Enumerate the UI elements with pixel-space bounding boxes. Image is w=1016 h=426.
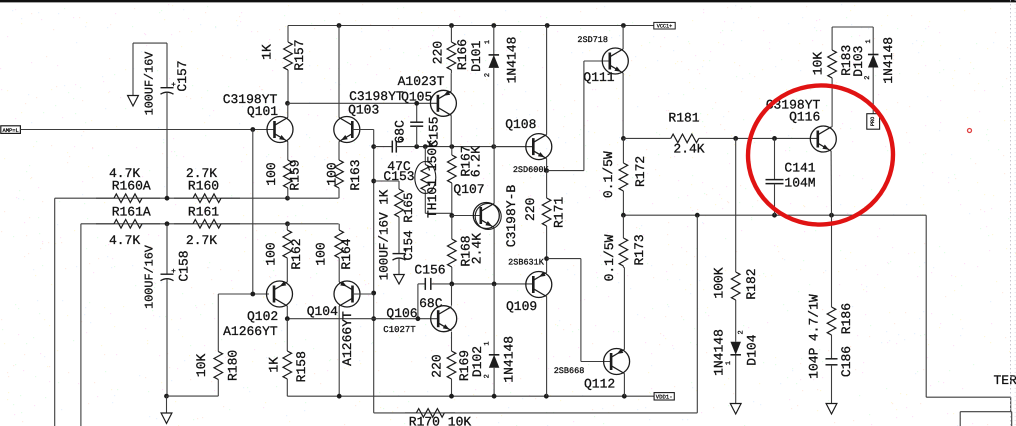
label Q101 bbox=[247, 104, 278, 119]
annotation red dot bbox=[968, 129, 972, 133]
label 2.4K R181 bbox=[673, 141, 704, 156]
svg-text:220: 220 bbox=[523, 198, 538, 221]
svg-text:A1023T: A1023T bbox=[398, 74, 445, 89]
svg-text:R180: R180 bbox=[226, 350, 241, 381]
label C157 bbox=[175, 60, 190, 91]
svg-text:C1027T: C1027T bbox=[383, 325, 416, 335]
wire central vertical bbox=[373, 130, 375, 413]
node central-C153wire bbox=[371, 144, 376, 149]
node D101-Q107c bbox=[491, 144, 496, 149]
label C3198YT Q116 bbox=[766, 98, 821, 113]
svg-text:2.4K: 2.4K bbox=[673, 141, 704, 156]
svg-text:4.7K: 4.7K bbox=[109, 233, 140, 248]
svg-text:D104: D104 bbox=[745, 334, 760, 365]
wire Q109e to Q112 base bbox=[547, 259, 611, 362]
svg-text:1N4148: 1N4148 bbox=[504, 37, 519, 84]
wire Q106 base bbox=[288, 318, 439, 320]
node C141 top bbox=[772, 136, 777, 141]
node rail-Q112c bbox=[622, 394, 627, 399]
svg-text:10K: 10K bbox=[194, 354, 209, 378]
wire Q101c to Q105 base bbox=[288, 102, 438, 104]
label 0.1/5W R172 bbox=[601, 151, 616, 198]
wire row2 bbox=[81, 223, 288, 225]
node Q107 base bbox=[449, 213, 454, 218]
label 6.2K bbox=[469, 146, 484, 177]
wire R180 top bbox=[217, 294, 219, 348]
wire term rail bbox=[926, 396, 1011, 398]
resistor R161A bbox=[96, 220, 160, 229]
wire row1 to R163 bbox=[288, 197, 339, 199]
node input-split bbox=[250, 127, 255, 132]
wire left drop2 bbox=[80, 224, 82, 426]
svg-text:1K: 1K bbox=[260, 44, 275, 60]
svg-text:R181: R181 bbox=[668, 110, 699, 125]
label C155 bbox=[426, 116, 441, 147]
wire R181 to Q116 bbox=[710, 137, 817, 139]
svg-text:100: 100 bbox=[313, 242, 328, 265]
node central-Q104b bbox=[371, 291, 376, 296]
node rail-C141 bbox=[772, 213, 777, 218]
transistor Q101 bbox=[267, 117, 293, 143]
svg-text:4.7/1W: 4.7/1W bbox=[806, 294, 821, 341]
svg-text:Q108: Q108 bbox=[505, 117, 536, 132]
label Q112 bbox=[584, 377, 615, 392]
wire Q112 emitter bbox=[623, 268, 625, 350]
label R163 bbox=[348, 159, 363, 190]
wire Q108 collector bbox=[546, 26, 548, 135]
label 2.7K R160 bbox=[186, 166, 217, 181]
label Q102 bbox=[247, 309, 278, 324]
diode D104 bbox=[730, 312, 741, 404]
label 1N4148 D104 bbox=[711, 329, 726, 376]
resistor R169 bbox=[447, 351, 456, 396]
label C156 bbox=[414, 262, 445, 277]
label C153 bbox=[383, 169, 414, 184]
label 104P C186 bbox=[806, 347, 821, 378]
svg-text:0.1/5W: 0.1/5W bbox=[602, 234, 617, 281]
label 68C C155 bbox=[392, 120, 407, 144]
label 2SB668 bbox=[554, 366, 585, 376]
label Q111 bbox=[583, 70, 614, 85]
resistor R160 bbox=[174, 194, 240, 203]
svg-text:Q101: Q101 bbox=[247, 104, 278, 119]
svg-text:100: 100 bbox=[325, 162, 340, 185]
resistor R160A bbox=[96, 194, 160, 203]
capacitor C141 bbox=[766, 138, 784, 215]
wire R173 to Q112e bbox=[623, 267, 624, 269]
wire Q103 base bbox=[352, 129, 373, 131]
wire Q102 emitter bbox=[286, 258, 288, 282]
wire input bbox=[20, 129, 274, 131]
resistor R167 bbox=[448, 147, 457, 216]
svg-text:2: 2 bbox=[737, 330, 745, 334]
label 1K R158 bbox=[266, 357, 281, 373]
svg-text:R170 10K: R170 10K bbox=[409, 414, 472, 426]
svg-text:R162: R162 bbox=[289, 238, 304, 269]
capacitor C186 bbox=[826, 356, 838, 404]
svg-text:2SD600K: 2SD600K bbox=[513, 165, 550, 175]
svg-text:2.7K: 2.7K bbox=[186, 233, 217, 248]
resistor R181 bbox=[660, 134, 710, 143]
node C155 bottom bbox=[414, 144, 419, 149]
svg-text:R166: R166 bbox=[455, 39, 470, 70]
node Q101 collector bbox=[285, 101, 290, 106]
node central-R165 bbox=[371, 179, 376, 184]
node rail-Q109c bbox=[544, 394, 549, 399]
label Q104 bbox=[307, 304, 338, 319]
node bus-R166 bbox=[449, 23, 454, 28]
wire term stub bbox=[1010, 397, 1012, 412]
ground C158 bbox=[161, 396, 172, 423]
label D101 bbox=[469, 41, 484, 72]
wire Q111 collector bbox=[622, 26, 624, 50]
label R173 bbox=[632, 234, 647, 265]
svg-text:Q109: Q109 bbox=[506, 299, 537, 314]
svg-text:100UF/16V: 100UF/16V bbox=[143, 51, 157, 116]
label 220 R169 bbox=[429, 354, 444, 377]
wire Q108e to Q111 base bbox=[547, 61, 610, 171]
resistor R159 bbox=[284, 160, 293, 198]
ground C154 bbox=[394, 275, 404, 285]
capacitor C157 bbox=[161, 43, 176, 198]
svg-text:2SB668: 2SB668 bbox=[554, 366, 585, 376]
label C158 bbox=[177, 250, 192, 281]
wire right drop bbox=[925, 215, 927, 397]
label 2SD718 bbox=[577, 35, 608, 45]
label 100UF/16V 1K bbox=[378, 189, 392, 280]
label R162 bbox=[289, 238, 304, 269]
node row2 R162 bbox=[285, 221, 290, 226]
page top edge bbox=[0, 0, 1016, 2]
wire C153 to Q108 bbox=[417, 146, 533, 148]
node row2 mid bbox=[165, 221, 170, 226]
label 1N4148 D102 bbox=[501, 336, 516, 383]
net label PRO bbox=[867, 114, 880, 130]
port AMP=L box bbox=[1, 126, 21, 134]
svg-text:C3198Y-B: C3198Y-B bbox=[504, 185, 519, 248]
svg-text:R186: R186 bbox=[839, 303, 854, 334]
svg-text:VDD1-: VDD1- bbox=[656, 394, 673, 401]
svg-text:C154 R165: C154 R165 bbox=[402, 192, 416, 260]
pin 1 D101 bbox=[484, 40, 492, 44]
svg-text:VCC1+: VCC1+ bbox=[657, 24, 673, 30]
label R170 10K bbox=[409, 414, 472, 426]
label 47C bbox=[387, 159, 411, 174]
node rail-fb bbox=[695, 213, 700, 218]
wire TH101 bottom bbox=[425, 212, 452, 214]
label 100K R182 bbox=[712, 267, 727, 298]
wire feedback bottom bbox=[374, 412, 698, 414]
label C3198YT Q103 bbox=[349, 89, 404, 104]
node Q109e bbox=[544, 256, 549, 261]
svg-text:C157: C157 bbox=[175, 60, 190, 91]
svg-text:2.4K: 2.4K bbox=[469, 233, 484, 264]
label D102 bbox=[470, 346, 485, 377]
svg-text:1N4148: 1N4148 bbox=[711, 329, 726, 376]
label 1N4148 D101 bbox=[504, 37, 519, 84]
wire Q102 collector bbox=[286, 306, 288, 319]
label 100 R163 bbox=[325, 162, 340, 185]
label R168 bbox=[458, 235, 473, 266]
label 220 R171 bbox=[523, 198, 538, 221]
label 100 R162 bbox=[263, 242, 278, 265]
wire C157 top bbox=[133, 42, 167, 44]
label TH101 150K bbox=[425, 140, 440, 218]
svg-text:1K: 1K bbox=[266, 357, 281, 373]
wire Q116 emitter bbox=[830, 151, 832, 215]
svg-text:100UF/16V 1K: 100UF/16V 1K bbox=[378, 189, 392, 280]
svg-text:2SD718: 2SD718 bbox=[577, 35, 608, 45]
label C1027T bbox=[383, 325, 416, 335]
svg-text:6.2K: 6.2K bbox=[469, 146, 484, 177]
transistor Q104 bbox=[334, 281, 360, 307]
svg-text:Q112: Q112 bbox=[584, 377, 615, 392]
capacitor C155 bbox=[410, 103, 423, 146]
svg-text:R172: R172 bbox=[633, 156, 648, 187]
wire Q107 base bbox=[452, 215, 481, 217]
resistor R172 bbox=[619, 138, 628, 215]
wire feedback down bbox=[696, 215, 698, 413]
resistor R170 bbox=[405, 409, 455, 418]
svg-text:A1266YT: A1266YT bbox=[340, 311, 355, 366]
pin 2 D104 bbox=[737, 330, 745, 334]
label C3198Y-B bbox=[504, 185, 519, 248]
transistor Q107 bbox=[473, 203, 501, 230]
svg-text:R161: R161 bbox=[188, 205, 219, 220]
label C186 bbox=[839, 346, 854, 377]
label R159 bbox=[288, 159, 303, 190]
capacitor C154 bbox=[393, 241, 408, 275]
wire Q107 emitter bbox=[493, 228, 495, 284]
wire bottom rail bbox=[287, 395, 654, 397]
node TH101 top bbox=[423, 144, 428, 149]
wire top VCC bus bbox=[288, 25, 654, 27]
wire Q109 emitter bbox=[546, 259, 548, 273]
label TER bbox=[994, 373, 1016, 388]
label 10K R183 bbox=[811, 52, 826, 76]
label Q108 bbox=[505, 117, 536, 132]
svg-text:2SB631K: 2SB631K bbox=[508, 258, 545, 268]
label 68C C156 bbox=[419, 296, 443, 311]
node central-Q106b bbox=[371, 316, 376, 321]
svg-text:R158: R158 bbox=[294, 351, 309, 382]
svg-text:2: 2 bbox=[484, 73, 492, 77]
resistor R186 bbox=[827, 215, 836, 357]
node rail-Q116e bbox=[829, 213, 834, 218]
svg-text:220: 220 bbox=[429, 354, 444, 377]
ground D104 bbox=[730, 404, 741, 415]
wire Q103 collector bbox=[338, 26, 340, 118]
svg-text:10K: 10K bbox=[811, 52, 826, 76]
resistor R182 bbox=[731, 260, 740, 312]
svg-text:68C: 68C bbox=[419, 296, 443, 311]
svg-text:100: 100 bbox=[264, 162, 279, 185]
label R160A bbox=[112, 179, 151, 194]
wire Q104 base bbox=[353, 293, 374, 295]
node row1 mid bbox=[165, 196, 170, 201]
svg-text:104P: 104P bbox=[806, 347, 821, 378]
wire Q107 collector bbox=[493, 147, 495, 204]
wire Q108 base bbox=[494, 146, 534, 148]
resistor R158 bbox=[283, 319, 292, 397]
label A1023T bbox=[398, 74, 445, 89]
label Q116 bbox=[789, 110, 820, 125]
node Q108e bbox=[544, 168, 549, 173]
svg-text:0.1/5W: 0.1/5W bbox=[601, 151, 616, 198]
label R172 bbox=[633, 156, 648, 187]
resistor R166 bbox=[447, 26, 456, 74]
wire R182 top bbox=[735, 138, 737, 260]
diode D101 bbox=[489, 26, 500, 147]
label Q107 bbox=[453, 182, 484, 197]
node Q105 base bbox=[414, 101, 419, 106]
svg-text:PRO: PRO bbox=[870, 117, 876, 126]
node bus-Q111c bbox=[621, 23, 626, 28]
svg-text:100UF/16V: 100UF/16V bbox=[143, 244, 157, 309]
pin 2 D102 bbox=[484, 374, 492, 378]
wire Q102 base bbox=[218, 293, 269, 295]
label 0.1/5W R173 bbox=[602, 234, 617, 281]
wire Q105 collector bbox=[450, 115, 452, 146]
resistor R183 bbox=[828, 27, 837, 127]
label R186 bbox=[839, 303, 854, 334]
resistor R161 bbox=[174, 220, 240, 229]
svg-text:TH101 150K: TH101 150K bbox=[425, 140, 440, 218]
transistor Q116 bbox=[810, 126, 836, 152]
label R180 bbox=[226, 350, 241, 381]
svg-text:Q103: Q103 bbox=[348, 102, 379, 117]
svg-text:68C: 68C bbox=[392, 120, 407, 144]
transistor Q112 bbox=[604, 349, 630, 375]
label 100 R164 bbox=[313, 242, 328, 265]
label 2.7K R161 bbox=[186, 233, 217, 248]
label 100 R159 bbox=[264, 162, 279, 185]
wire Q111 emitter bbox=[622, 73, 624, 138]
node Q111e-R172 bbox=[621, 136, 626, 141]
resistor R180 bbox=[214, 348, 223, 384]
node Q102 base bbox=[250, 292, 255, 297]
net label VDD1- bbox=[654, 393, 674, 401]
diode D103 bbox=[868, 27, 879, 114]
resistor R168 bbox=[448, 216, 457, 284]
svg-text:1: 1 bbox=[865, 39, 873, 43]
wire R165 top bbox=[374, 180, 399, 182]
svg-text:R182: R182 bbox=[744, 268, 759, 299]
wire row2 to R164 bbox=[288, 223, 339, 225]
node C158 gnd bbox=[164, 394, 169, 399]
capacitor C153 47C bbox=[374, 138, 417, 153]
wire row1 bbox=[55, 197, 288, 199]
label D104 bbox=[745, 334, 760, 365]
label 220 R166 bbox=[431, 41, 446, 64]
wire Q101 emitter stub bbox=[287, 142, 289, 161]
wire Q103 emitter stub bbox=[338, 142, 340, 161]
label R171 bbox=[551, 197, 566, 228]
label R182 bbox=[744, 268, 759, 299]
transistor Q103 bbox=[334, 117, 360, 143]
svg-text:2: 2 bbox=[484, 374, 492, 378]
wire Q105 emitter bbox=[450, 73, 452, 91]
label 4.7K R161A bbox=[109, 233, 140, 248]
label R161 bbox=[188, 205, 219, 220]
svg-text:AMP=L: AMP=L bbox=[3, 128, 19, 134]
svg-text:Q102: Q102 bbox=[247, 309, 278, 324]
wire left drop1 bbox=[54, 198, 56, 426]
pin 2 D103 bbox=[864, 75, 872, 79]
svg-text:1N4148: 1N4148 bbox=[881, 37, 896, 84]
label R158 bbox=[294, 351, 309, 382]
label 104M bbox=[784, 176, 815, 191]
thermistor TH101 bbox=[415, 147, 436, 214]
svg-text:R157: R157 bbox=[292, 39, 307, 70]
label R183 bbox=[839, 45, 854, 76]
node rail-R172 bbox=[621, 213, 626, 218]
label Q109 bbox=[506, 299, 537, 314]
svg-text:D101: D101 bbox=[469, 41, 484, 72]
svg-text:R163: R163 bbox=[348, 159, 363, 190]
transistor Q108 bbox=[526, 134, 552, 160]
svg-text:D103: D103 bbox=[851, 45, 866, 76]
svg-text:Q106: Q106 bbox=[386, 306, 417, 321]
label D103 bbox=[851, 45, 866, 76]
label 1N4148 D103 bbox=[881, 37, 896, 84]
label 2SD600K bbox=[513, 165, 550, 175]
svg-text:R161A: R161A bbox=[112, 205, 151, 220]
node rail-Q104c bbox=[337, 394, 342, 399]
transistor Q111 bbox=[602, 48, 628, 74]
svg-text:Q104: Q104 bbox=[307, 304, 338, 319]
transistor Q109 bbox=[526, 272, 552, 298]
label R169 bbox=[457, 350, 472, 381]
node row1 R159 bbox=[285, 196, 290, 201]
node R167 top bbox=[449, 144, 454, 149]
node rail-D102 bbox=[492, 394, 497, 399]
node bus-Q108c bbox=[545, 23, 550, 28]
svg-text:100: 100 bbox=[263, 242, 278, 265]
svg-text:R160A: R160A bbox=[112, 179, 151, 194]
wire C156 left stub bbox=[417, 284, 419, 319]
resistor R164 bbox=[335, 224, 344, 258]
svg-text:R164: R164 bbox=[339, 238, 354, 269]
label 4.7/1W R186 bbox=[806, 294, 821, 341]
label 4.7K R160A bbox=[109, 166, 140, 181]
pin 1 D102 bbox=[484, 341, 492, 345]
wire Q101 collector stub bbox=[287, 103, 289, 117]
svg-text:R169: R169 bbox=[457, 350, 472, 381]
svg-text:1: 1 bbox=[484, 341, 492, 345]
wire R180 bottom bbox=[167, 384, 219, 396]
transistor Q102 bbox=[267, 281, 293, 307]
label 100UF/16V C157 bbox=[143, 51, 157, 116]
label R164 bbox=[339, 238, 354, 269]
label C3198YT Q101 bbox=[223, 92, 278, 107]
wire Q108 emitter bbox=[546, 159, 548, 171]
wire C156 to Q109 bbox=[452, 283, 533, 285]
resistor R165 bbox=[395, 181, 404, 241]
svg-text:1: 1 bbox=[725, 361, 733, 365]
node Q107e-Q109b bbox=[492, 282, 497, 287]
ground C186 bbox=[826, 404, 837, 415]
label C141 bbox=[784, 161, 815, 176]
label R160 bbox=[188, 179, 219, 194]
node Q102c-R158 bbox=[285, 316, 290, 321]
scan artifact right edge bbox=[1011, 0, 1016, 426]
svg-text:R160: R160 bbox=[188, 179, 219, 194]
label 10K R180 bbox=[194, 354, 209, 378]
wire R183-D103 top bbox=[832, 26, 873, 28]
label 2.4K R168 bbox=[469, 233, 484, 264]
svg-text:C186: C186 bbox=[839, 346, 854, 377]
